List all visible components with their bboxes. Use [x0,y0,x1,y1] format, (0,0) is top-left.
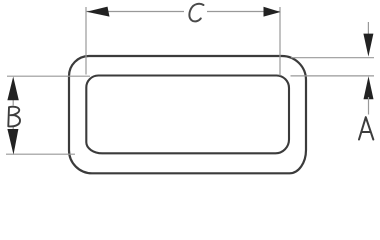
A stem lower [368,97,370,115]
dimension B extension line top [7,75,90,77]
outer ring outline [69,56,306,173]
A arrowhead up [364,76,374,99]
B arrowhead down [7,129,18,155]
label C [189,4,203,22]
B arrowhead up [7,77,18,101]
dimension B extension line bottom [6,153,75,155]
dimension A extension line bottom [291,75,375,77]
A arrowhead down [363,34,373,57]
dimension C extension line right [279,7,281,76]
B stem upper [12,96,14,106]
label B [8,107,20,127]
dimension C extension line left [85,7,87,75]
dimension C line right segment [207,11,280,13]
dimension A extension line top [291,57,374,59]
label A [359,117,373,139]
B stem lower [12,127,14,134]
inner ring outline [86,76,289,154]
A stem upper [367,22,369,36]
dimension C line left segment [87,11,185,13]
C arrowhead left [87,7,110,17]
C arrowhead right [264,7,281,17]
